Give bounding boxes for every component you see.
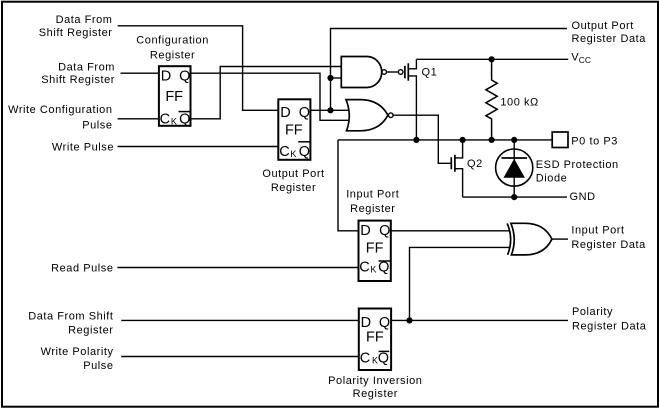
transistor Q1 (PMOS) — [398, 59, 437, 140]
svg-text:C: C — [279, 144, 289, 160]
svg-text:Register: Register — [68, 325, 113, 337]
svg-text:CC: CC — [579, 55, 591, 65]
node junction Polarity Q / XOR branch — [406, 317, 412, 323]
svg-text:D: D — [360, 223, 370, 239]
wire Write Pulse to Output Port Register CK — [118, 146, 279, 148]
wire NAND input 2 branch — [331, 77, 343, 79]
node junction resistor / rail — [489, 137, 495, 143]
label Data From Shift Register (third) — [28, 310, 113, 336]
wire Polarity Register Q up to XOR input 2 — [410, 247, 510, 320]
label Polarity Register Data — [572, 306, 647, 332]
svg-text:Q: Q — [378, 350, 389, 366]
svg-text:FF: FF — [285, 123, 303, 139]
svg-text:Configuration: Configuration — [136, 35, 209, 47]
wire Data From Shift Register to Configuration Register D — [121, 72, 159, 74]
svg-text:FF: FF — [366, 329, 384, 345]
wire Configuration Register Q to NOR input 2 — [191, 73, 349, 120]
wire Polarity Register Q to Polarity Register Data — [390, 319, 568, 321]
label Output Port Register Data — [572, 20, 647, 45]
label Input Port Register (heading) — [346, 189, 399, 215]
label Data From Shift Register (second) — [41, 61, 115, 86]
svg-text:Pulse: Pulse — [83, 360, 113, 372]
gate XOR U6 — [507, 223, 552, 255]
svg-text:Register: Register — [150, 50, 195, 62]
label Polarity Inversion Register (heading) — [328, 375, 422, 400]
gate NOR U4 — [346, 100, 393, 131]
node junction Q2 drain / rail — [460, 137, 466, 143]
node junction ESD diode / GND rail — [511, 194, 517, 200]
svg-text:Data From: Data From — [58, 61, 115, 73]
svg-text:FF: FF — [366, 241, 384, 257]
flip-flop U1 Configuration Register — [159, 66, 191, 127]
svg-text:Output Port: Output Port — [262, 168, 324, 180]
svg-text:Data From: Data From — [56, 14, 113, 26]
svg-text:C: C — [360, 350, 370, 366]
label Output Port Register (heading) — [262, 168, 324, 194]
svg-text:Q1: Q1 — [422, 67, 438, 79]
svg-text:Write Polarity: Write Polarity — [41, 346, 114, 358]
svg-text:Input Port: Input Port — [571, 224, 624, 236]
svg-text:Q: Q — [299, 105, 310, 121]
wire Output Port Register Q to NOR input 1 — [310, 109, 349, 111]
wire Data From Shift Register to Output Port Register D — [118, 26, 279, 111]
wire Input Port Register Q to XOR input 1 — [391, 230, 509, 232]
node junction VCC / resistor — [489, 56, 495, 62]
wire Output Port Register Q up to Output Port Register Data — [331, 29, 568, 111]
svg-text:Register: Register — [353, 388, 398, 400]
svg-text:Q: Q — [179, 68, 190, 84]
svg-text:Input Port: Input Port — [346, 189, 399, 201]
svg-text:FF: FF — [165, 89, 183, 105]
svg-text:Register: Register — [350, 203, 395, 215]
flip-flop U5 Input Port Register — [359, 221, 391, 281]
svg-text:Write Configuration: Write Configuration — [8, 104, 112, 116]
label VCC — [571, 51, 591, 65]
svg-text:Register Data: Register Data — [572, 320, 647, 332]
svg-text:ESD Protection: ESD Protection — [536, 159, 619, 171]
wire port rail P0-P3 — [338, 139, 552, 141]
node junction ESD diode / rail — [511, 137, 517, 143]
transistor Q2 (NMOS) — [451, 140, 482, 197]
pad P0 to P3 — [552, 132, 568, 148]
label Configuration Register (heading) — [136, 35, 209, 62]
wire Configuration Register Qbar to NAND input 1 — [191, 67, 343, 119]
wire Write Configuration Pulse to Configuration Register CK — [118, 118, 159, 120]
label Write Polarity Pulse — [41, 346, 114, 372]
svg-text:Shift Register: Shift Register — [41, 74, 115, 86]
svg-text:Pulse: Pulse — [82, 120, 112, 132]
svg-text:Register: Register — [271, 182, 316, 194]
svg-text:C: C — [160, 112, 170, 128]
svg-text:Shift Register: Shift Register — [39, 27, 113, 39]
svg-text:D: D — [161, 68, 171, 84]
svg-text:Q2: Q2 — [467, 158, 483, 170]
svg-text:D: D — [280, 105, 290, 121]
svg-text:Diode: Diode — [536, 173, 568, 185]
gate NAND U3 — [341, 57, 386, 88]
wire Data From Shift Register to Polarity Register D — [121, 319, 359, 321]
wire XOR output to Input Port Register Data — [552, 238, 568, 240]
wire Read Pulse to Input Port Register CK — [117, 267, 358, 269]
svg-text:K: K — [171, 117, 177, 127]
wire VCC rail — [416, 58, 568, 60]
svg-text:K: K — [370, 264, 376, 274]
svg-text:100 kΩ: 100 kΩ — [500, 97, 538, 109]
label Write Configuration Pulse — [8, 104, 112, 132]
label Data From Shift Register (top) — [39, 14, 113, 39]
svg-text:P0 to P3: P0 to P3 — [571, 135, 618, 147]
wire NAND output to Q1 gate — [387, 71, 398, 73]
diode D1 ESD protection — [496, 140, 533, 197]
flip-flop U7 Polarity Inversion Register — [359, 309, 391, 371]
node junction output Q / OPRD vertical — [327, 107, 333, 113]
svg-text:Register Data: Register Data — [571, 239, 646, 251]
label Input Port Register Data — [571, 224, 646, 251]
svg-text:Register Data: Register Data — [572, 33, 647, 45]
svg-text:K: K — [290, 149, 296, 159]
svg-text:Q: Q — [299, 144, 310, 160]
svg-text:Q: Q — [379, 223, 390, 239]
wire GND rail — [463, 196, 567, 198]
svg-text:Output Port: Output Port — [572, 20, 634, 32]
svg-text:Polarity: Polarity — [572, 306, 613, 318]
wire port rail down to Input Port Register D — [338, 140, 359, 231]
svg-text:Write Pulse: Write Pulse — [52, 141, 114, 153]
wire Write Polarity Pulse to Polarity Register CK — [121, 356, 359, 358]
node junction Q1 source / rail — [413, 137, 419, 143]
label ESD Protection Diode — [536, 159, 619, 184]
resistor R1 100 kOhm — [486, 59, 539, 140]
node junction NAND input 2 — [327, 75, 333, 81]
wire NOR output to Q2 gate — [393, 115, 451, 163]
svg-text:Polarity Inversion: Polarity Inversion — [328, 375, 422, 387]
svg-text:Q: Q — [179, 112, 190, 128]
svg-text:GND: GND — [570, 191, 596, 203]
svg-text:C: C — [359, 259, 369, 275]
flip-flop U2 Output Port Register — [278, 99, 310, 160]
svg-text:Data From Shift: Data From Shift — [28, 310, 113, 322]
svg-text:Read Pulse: Read Pulse — [51, 263, 113, 275]
